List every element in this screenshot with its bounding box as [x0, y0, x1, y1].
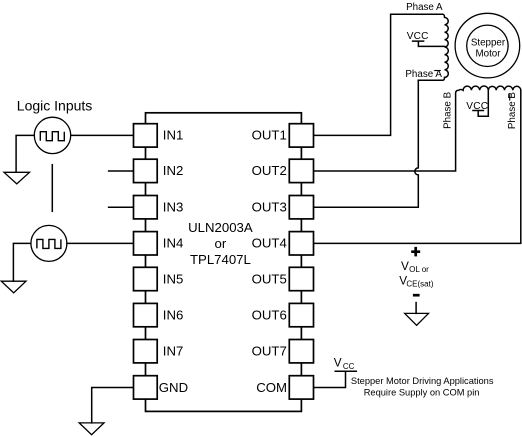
svg-text:OUT5: OUT5: [252, 271, 287, 286]
svg-text:CC: CC: [343, 362, 355, 371]
svg-text:V: V: [401, 259, 409, 273]
svg-text:Stepper: Stepper: [471, 37, 506, 48]
svg-text:OL or: OL or: [409, 265, 429, 274]
svg-text:OUT1: OUT1: [252, 128, 287, 143]
svg-text:Phase B: Phase B: [507, 92, 518, 130]
svg-text:COM: COM: [256, 380, 287, 395]
svg-text:Require Supply on COM pin: Require Supply on COM pin: [364, 387, 480, 397]
svg-text:IN2: IN2: [163, 163, 184, 178]
svg-text:or: or: [215, 236, 227, 251]
svg-text:Phase B: Phase B: [443, 91, 454, 129]
svg-text:IN5: IN5: [163, 271, 184, 286]
svg-text:OUT6: OUT6: [252, 307, 287, 322]
svg-text:Stepper Motor Driving Applicat: Stepper Motor Driving Applications: [351, 376, 494, 386]
svg-text:Motor: Motor: [475, 48, 501, 59]
svg-text:IN7: IN7: [163, 344, 184, 359]
svg-text:ULN2003A: ULN2003A: [188, 220, 253, 235]
svg-text:Phase A: Phase A: [405, 69, 442, 80]
svg-text:VCC: VCC: [407, 31, 429, 42]
svg-text:OUT2: OUT2: [252, 163, 287, 178]
svg-text:CE(sat): CE(sat): [406, 280, 433, 289]
svg-text:OUT4: OUT4: [252, 236, 287, 251]
svg-text:GND: GND: [159, 380, 188, 395]
svg-text:VCC: VCC: [466, 101, 488, 112]
svg-text:IN4: IN4: [163, 236, 184, 251]
svg-text:TPL7407L: TPL7407L: [190, 252, 251, 267]
svg-text:Phase A: Phase A: [406, 2, 443, 13]
svg-text:Logic Inputs: Logic Inputs: [17, 98, 93, 114]
svg-text:IN1: IN1: [163, 128, 184, 143]
svg-text:IN3: IN3: [163, 200, 184, 215]
svg-text:IN6: IN6: [163, 307, 184, 322]
svg-text:OUT3: OUT3: [252, 200, 287, 215]
svg-text:V: V: [334, 355, 342, 369]
svg-text:OUT7: OUT7: [252, 344, 287, 359]
